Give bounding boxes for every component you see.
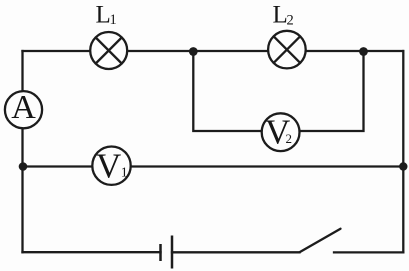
svg-text:1: 1 — [110, 12, 117, 28]
junction node dot (right rail / V1 row) — [399, 162, 407, 170]
svg-text:V: V — [96, 147, 121, 186]
ammeter A — [5, 89, 42, 129]
svg-text:A: A — [11, 89, 36, 126]
wire switch to bottom right — [334, 251, 403, 253]
wire middle rail (V1 row) — [23, 165, 404, 167]
battery cell — [161, 236, 173, 269]
wire right vertical — [402, 51, 404, 252]
svg-text:L: L — [273, 1, 288, 28]
wire left vertical — [21, 51, 23, 252]
svg-text:1: 1 — [121, 166, 128, 181]
voltmeter V1 — [92, 147, 130, 186]
lamp L1 — [90, 32, 127, 69]
lamp L2 — [268, 31, 306, 69]
wire top rail — [23, 50, 404, 52]
svg-text:2: 2 — [287, 13, 294, 29]
junction node dot (L2 right + V2 tap) — [359, 47, 368, 56]
wire V2 loop — [193, 52, 363, 132]
junction node dot (left rail / V1 row) — [19, 162, 28, 171]
wire bottom left to battery — [23, 251, 161, 253]
voltmeter V2 — [262, 113, 300, 152]
svg-text:L: L — [96, 1, 111, 28]
wire battery to switch — [172, 251, 300, 253]
junction node dot (L1/L2 + V2 tap) — [189, 47, 198, 56]
switch S open lever — [300, 229, 341, 253]
svg-text:2: 2 — [286, 131, 293, 146]
